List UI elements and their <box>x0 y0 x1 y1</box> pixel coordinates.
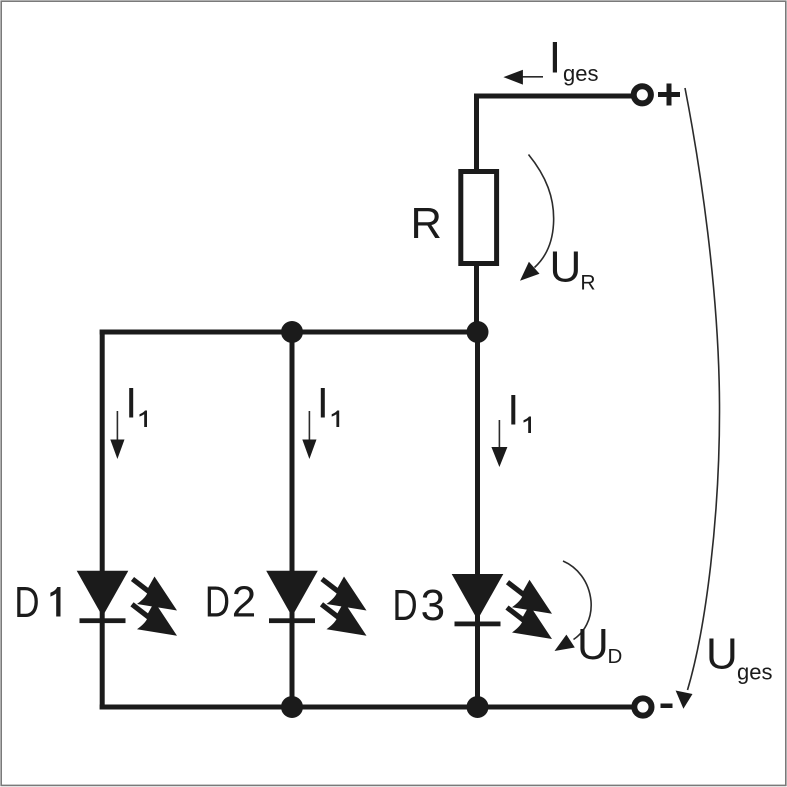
voltage arrow U_ges (long curve from + to -) <box>685 88 720 690</box>
terminal - (circle) <box>634 698 651 715</box>
svg-text:2: 2 <box>232 578 256 627</box>
digit 1 of D1 (Arial-style) <box>50 587 60 617</box>
wire top bus <box>100 330 480 335</box>
current arrow I1 left <box>116 411 118 444</box>
LED D1 <box>77 571 177 636</box>
wire right branch vertical <box>475 332 480 707</box>
node junction bottom middle <box>281 696 303 718</box>
svg-text:R: R <box>411 200 442 248</box>
plus sign <box>658 84 680 106</box>
svg-text:D: D <box>14 578 39 627</box>
label I1 middle <box>321 388 325 418</box>
node junction top middle <box>281 321 303 343</box>
svg-text:U: U <box>577 620 609 669</box>
wire left branch vertical <box>100 330 105 710</box>
LED D2 <box>266 571 366 636</box>
minus sign <box>661 704 673 709</box>
wire: resistor bottom to top bus <box>474 263 479 334</box>
voltage arrow U_D (curved) <box>563 561 591 640</box>
svg-text:R: R <box>580 271 595 294</box>
svg-text:ges: ges <box>737 660 772 685</box>
label I1 right <box>511 395 515 425</box>
label I_ges <box>553 42 557 73</box>
wire: corner down to resistor top <box>474 94 479 175</box>
wire bottom bus <box>100 705 632 710</box>
svg-text:3: 3 <box>421 581 445 630</box>
svg-text:D: D <box>205 578 230 627</box>
node junction top right <box>467 321 489 343</box>
LED D3 <box>452 574 552 639</box>
svg-text:U: U <box>706 630 738 679</box>
wire middle branch vertical <box>290 332 295 707</box>
node junction bottom right <box>467 696 489 718</box>
svg-text:U: U <box>550 242 582 291</box>
svg-text:D: D <box>393 581 418 630</box>
svg-text:ges: ges <box>563 61 598 86</box>
terminal + (circle) <box>634 86 651 103</box>
current arrow I1 middle <box>308 411 310 444</box>
arrow I_ges <box>521 76 543 78</box>
voltage arrow U_R (curved) <box>529 155 554 268</box>
resistor R <box>461 172 497 264</box>
wire top: + terminal to corner <box>474 94 632 99</box>
label I1 left <box>129 388 133 418</box>
svg-text:D: D <box>608 645 623 668</box>
current arrow I1 right <box>498 420 500 451</box>
